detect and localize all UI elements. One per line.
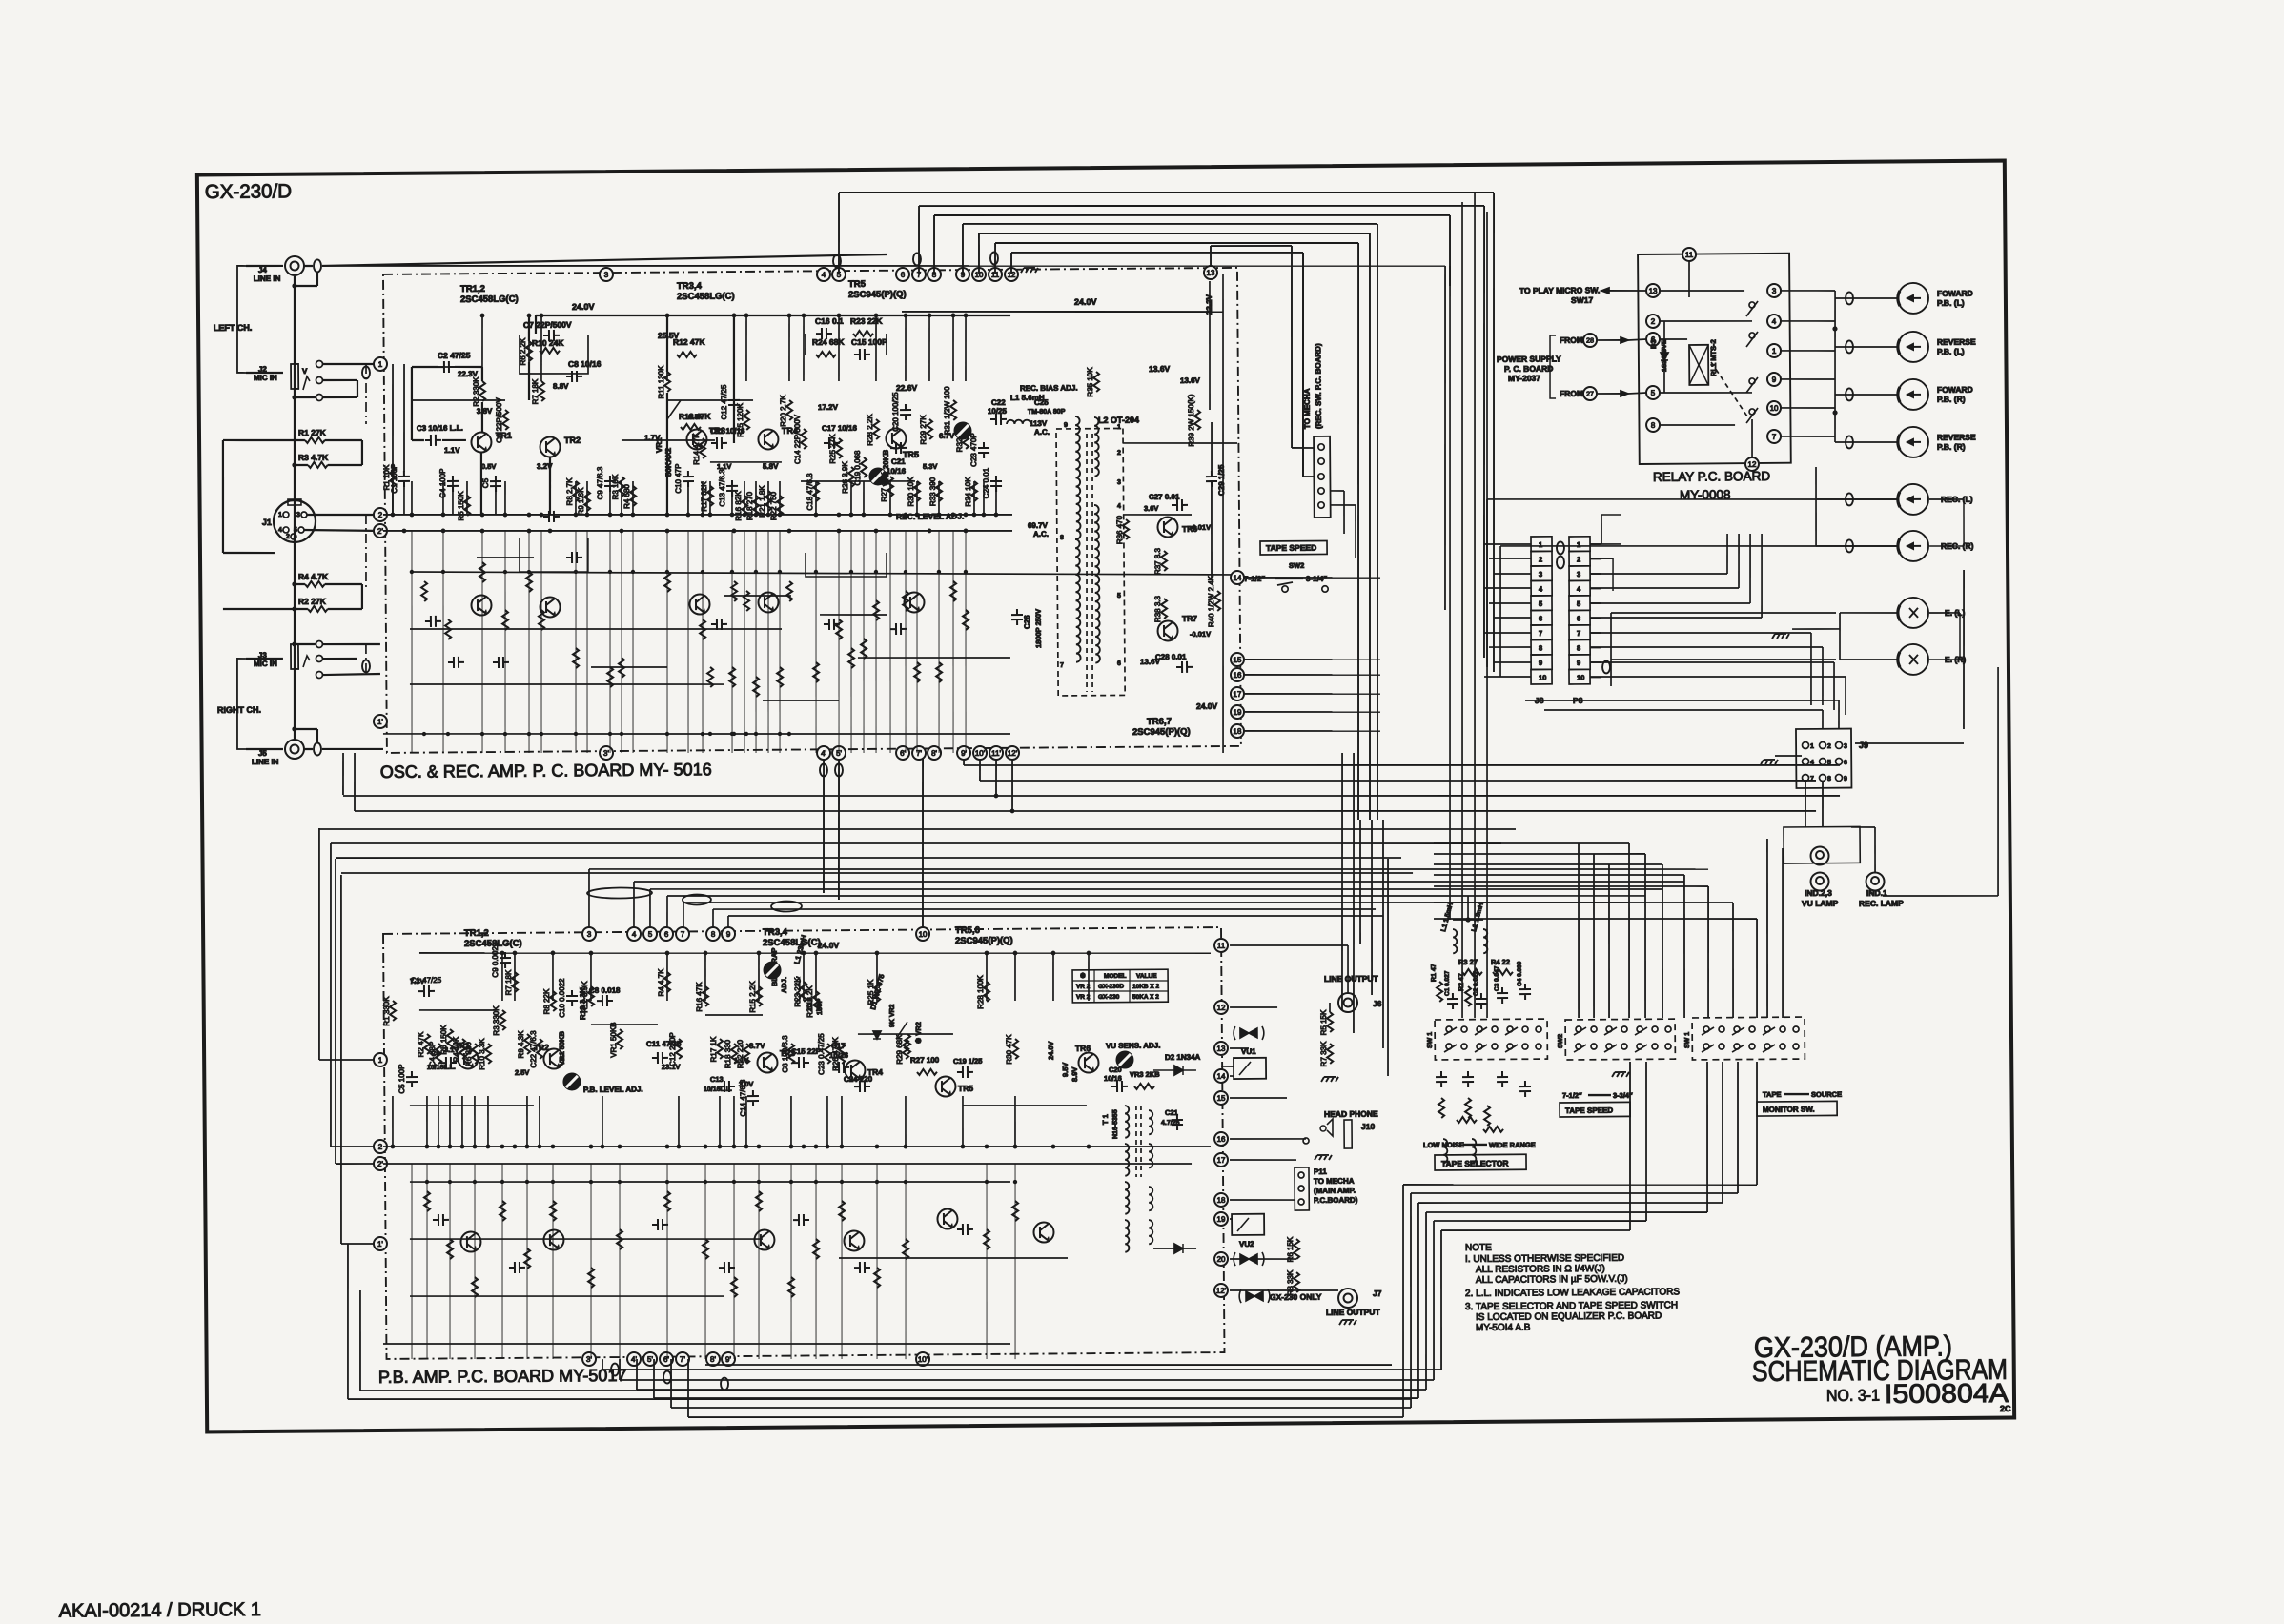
junction: [874, 314, 879, 318]
terminal 11 right edge MY-5017: [1214, 939, 1228, 952]
svg-text:6: 6: [1844, 760, 1847, 766]
resistor mirror channel: [607, 667, 613, 687]
svg-text:10': 10': [918, 1355, 928, 1364]
svg-text:R38 3.3: R38 3.3: [1153, 595, 1162, 622]
svg-text:REVERSE: REVERSE: [1937, 337, 1976, 347]
junction PB mirror: [757, 1180, 761, 1184]
junction PB mirror: [500, 1180, 504, 1184]
J8 pin 3 box: [1531, 566, 1552, 581]
svg-text:MY-0008: MY-0008: [1680, 488, 1731, 502]
resistor R2 47K: [424, 1034, 430, 1054]
wire nested: [650, 882, 1662, 898]
lamp IND1 REC: [1866, 872, 1884, 890]
capacitor C7: [543, 330, 560, 341]
wire link: [622, 439, 715, 441]
capacitor mirror channel: [890, 623, 907, 635]
resistor C12 220P: [676, 1039, 682, 1059]
transistor TR1: [471, 432, 491, 452]
svg-text:R1 330K: R1 330K: [382, 996, 391, 1026]
resistor C23 0.47/25: [825, 1044, 830, 1064]
svg-text:GX-230: GX-230: [1098, 994, 1120, 1001]
resistor R39 2W 150(K): [1194, 410, 1200, 430]
wire: [705, 1359, 1392, 1370]
relay terminal 4: [1767, 315, 1781, 328]
resistor C8 100/6.3: [788, 1044, 794, 1064]
wire mirror vertical: [665, 531, 669, 753]
terminal 9' board MY-5016: [957, 746, 970, 760]
wire nested corner horiz: [1434, 873, 1684, 877]
svg-text:3: 3: [1844, 743, 1847, 750]
junction PB: [618, 1145, 622, 1149]
svg-text:VU2: VU2: [1239, 1240, 1254, 1248]
wire from 13: [1209, 281, 1211, 410]
capacitor mirror PB: [957, 1224, 973, 1235]
junction: [665, 513, 670, 518]
wire link PB: [963, 1105, 1087, 1106]
terminal 18 right edge MY-5017: [1214, 1193, 1228, 1207]
svg-text:1: 1: [1577, 540, 1580, 549]
lamp IND3 VU: [1810, 872, 1828, 890]
svg-text:IS LOCATED ON EQUALIZER P.: IS LOCATED ON EQUALIZER P.C. BOARD: [1476, 1310, 1662, 1323]
svg-text:IND.1: IND.1: [1866, 888, 1887, 898]
relay terminal 2: [1646, 315, 1660, 328]
wire mirror vertical: [766, 531, 770, 753]
capacitor mirror channel: [543, 511, 560, 522]
svg-text:J6: J6: [1373, 999, 1382, 1008]
capacitor C15: [854, 349, 870, 360]
wire J8 feed 1: [1484, 543, 1531, 546]
wire bundle horizontal: [919, 201, 1484, 210]
svg-text:C5 100P: C5 100P: [398, 1065, 406, 1094]
wire to J9: [1855, 742, 1964, 744]
junction: [574, 513, 579, 518]
svg-text:2': 2': [377, 1160, 384, 1168]
resistor mirror PB: [617, 1229, 622, 1249]
capacitor mirror PB: [652, 1219, 668, 1230]
wire mirror vertical PB: [473, 1164, 476, 1359]
wire staircase horizontal: [1403, 1182, 1757, 1188]
resistor mirror PB: [472, 1277, 478, 1297]
J9 pin 8: [1819, 774, 1825, 781]
junction PB: [486, 1145, 491, 1149]
wire: [1123, 442, 1237, 444]
wire stub from 24V rail PB: [803, 953, 806, 1001]
monitor SW lever: [1702, 1027, 1714, 1035]
junction mirror: [904, 570, 907, 574]
wire bottom bundle: [654, 1392, 1418, 1405]
J1 pin 2: [291, 534, 296, 539]
svg-text:SOURCE: SOURCE: [1811, 1090, 1842, 1099]
capacitor C8 10/16: [566, 371, 582, 382]
wire riser from top bus: [1010, 253, 1012, 274]
wire right vertical: [1371, 820, 1374, 995]
svg-text:T 1: T 1: [1101, 1114, 1110, 1125]
wire right edge inner: [1219, 274, 1227, 753]
junction PB mirror: [448, 1180, 452, 1184]
svg-text:J1: J1: [262, 518, 272, 527]
svg-text:12': 12': [1008, 749, 1018, 758]
terminal 8' board MY-5017: [706, 1352, 720, 1366]
wire into terminal 2 PB: [331, 1146, 377, 1148]
junction mirror: [574, 570, 578, 574]
junction: [837, 529, 842, 534]
capacitor C28: [1176, 661, 1193, 673]
wire stub to bus 2: [916, 481, 919, 515]
svg-text:1: 1: [278, 512, 282, 518]
svg-text:18: 18: [1233, 727, 1242, 736]
svg-text:15: 15: [1233, 656, 1242, 664]
resistor R17 1K: [717, 1039, 723, 1059]
svg-text:R30 47K: R30 47K: [1005, 1034, 1013, 1065]
junction mirror rail: [446, 732, 450, 736]
capacitor C11 47/25: [652, 1052, 668, 1064]
transistor TR7: [1157, 620, 1177, 640]
svg-text:R4 680: R4 680: [622, 484, 631, 509]
svg-text:16: 16: [1234, 671, 1243, 680]
wire riser bottom bundle: [1401, 1185, 1405, 1417]
coil L2 primary upper: [1075, 416, 1081, 539]
wire mirror vertical: [904, 531, 907, 753]
resistor mirror channel: [731, 581, 737, 601]
capacitor C24 0.01: [990, 476, 1002, 492]
wire to head: [1835, 394, 1897, 395]
wire P8 pin 2: [1590, 558, 1601, 559]
T1 core: [1135, 1106, 1136, 1177]
wire drop to PB bus: [666, 896, 669, 928]
junction PB: [1051, 1145, 1056, 1149]
svg-text:18: 18: [1217, 1196, 1227, 1205]
svg-text:VR1 50KB: VR1 50KB: [558, 1031, 566, 1066]
cable bundle ovals: [587, 887, 652, 899]
shield oval: [362, 660, 370, 672]
svg-text:3.7V: 3.7V: [749, 1042, 765, 1050]
wire: [481, 367, 483, 381]
terminal 7' board MY-5017: [676, 1352, 689, 1366]
capacitor C4: [1519, 984, 1531, 1000]
wire LINE IN to top bus: [322, 254, 887, 266]
SW2 contact top: [1606, 1026, 1612, 1032]
wire to REC R long: [1500, 543, 1897, 550]
junction mirror rail: [608, 732, 612, 736]
svg-text:N16-5355: N16-5355: [1112, 1109, 1119, 1139]
contact: [316, 655, 322, 661]
wire: [1822, 710, 1824, 729]
terminal 7 board MY-5017: [676, 927, 689, 941]
svg-text:8: 8: [1651, 421, 1656, 430]
svg-text:7.3V: 7.3V: [410, 977, 425, 985]
headphone jack J10: [1320, 1126, 1326, 1131]
capacitor C19 1/25: [957, 1066, 973, 1078]
head FOWARD P.B. (L): [1898, 283, 1928, 314]
svg-text:14: 14: [1217, 1072, 1227, 1081]
svg-text:22.2V: 22.2V: [1205, 294, 1213, 315]
terminal 11' board MY-5016: [989, 746, 1003, 760]
junction PB: [961, 1145, 966, 1149]
junction mirror rail: [620, 732, 623, 736]
junction PB: [601, 1145, 605, 1149]
P11 connector: [1295, 1167, 1309, 1210]
svg-text:VR1 50KB: VR1 50KB: [609, 1022, 618, 1057]
wire mirror vertical: [964, 531, 968, 753]
wire: [1303, 476, 1314, 477]
svg-text:24.0V: 24.0V: [572, 302, 595, 312]
svg-text:REC. BIAS ADJ.: REC. BIAS ADJ.: [1020, 384, 1078, 393]
wire rec bracket: [1929, 498, 1964, 501]
resistor mirror channel: [836, 619, 842, 639]
capacitor C14 22P/500V: [801, 429, 806, 449]
resistor mirror channel: [777, 667, 783, 687]
resistor VR1 50KB: [617, 1029, 622, 1049]
svg-text:2': 2': [377, 527, 384, 536]
wire mirror vertical: [778, 531, 782, 753]
wire e bracket: [1929, 612, 1960, 614]
svg-text:A.C.: A.C.: [1034, 428, 1050, 436]
svg-text:R18 330: R18 330: [724, 1039, 732, 1068]
wire vertical to SW2: [1593, 854, 1596, 1018]
junction: [787, 529, 792, 534]
wire mirror rail upper: [410, 565, 1232, 580]
arrow: [1784, 1093, 1809, 1096]
wire: [1610, 613, 1611, 686]
svg-text:J9: J9: [1859, 741, 1868, 750]
wire bottom bundle: [637, 1383, 1426, 1395]
resistor R8 22K: [550, 991, 556, 1011]
wire P8 pin 8: [1590, 646, 1601, 648]
box TAPE SELECTOR: [1435, 1154, 1526, 1170]
wire P8 riser: [1821, 647, 1824, 705]
svg-text:R40 1/2W 2.4K: R40 1/2W 2.4K: [1207, 575, 1215, 627]
svg-text:SW17: SW17: [1571, 295, 1593, 305]
junction PB: [677, 1145, 682, 1149]
wire: [316, 273, 318, 286]
transformer L2 OT-204 primary: [1056, 428, 1125, 696]
terminal 5' board MY-5016: [832, 746, 846, 760]
wire mid bundle c: [319, 820, 1516, 839]
svg-text:※ VR2: ※ VR2: [914, 1022, 923, 1044]
resistor R25 1K: [874, 982, 880, 1002]
resistor R4 680: [630, 486, 636, 506]
wire drop to PB bus: [587, 869, 590, 928]
svg-text:R25 27K: R25 27K: [828, 434, 837, 464]
wire: [361, 584, 364, 609]
svg-text:R27 12K: R27 12K: [880, 472, 888, 502]
wire bundle horizontal: [934, 212, 1450, 219]
wire stub to bus 2: [452, 481, 455, 515]
svg-text:19: 19: [1217, 1215, 1227, 1224]
junction PB rail: [985, 951, 989, 956]
connector oval head: [1846, 388, 1853, 400]
wire PB terminal feed: [1230, 1199, 1295, 1200]
wire drop to PB bus: [727, 916, 729, 928]
monitor SW lever: [1763, 1045, 1775, 1052]
svg-text:R37 3.3: R37 3.3: [1153, 547, 1162, 575]
wire stub from 24V rail: [952, 315, 953, 381]
wire to E R long: [1611, 658, 1836, 661]
J8 pin 2 box: [1531, 551, 1552, 566]
svg-text:P.B. (R): P.B. (R): [1937, 395, 1966, 404]
resistor R5 15K: [1327, 1012, 1333, 1032]
terminal 5 board MY-5016: [832, 268, 846, 281]
wire D3 branch: [1663, 321, 1664, 393]
junction PB: [985, 1145, 989, 1149]
svg-text:TR7: TR7: [1182, 614, 1197, 623]
resistor R8 2.7K: [573, 481, 579, 501]
resistor R10 3.3K: [485, 1044, 491, 1064]
junction: [814, 513, 819, 518]
wire stub to bus 2 PB: [426, 1096, 429, 1147]
svg-text:C10 47P: C10 47P: [674, 464, 683, 494]
wire: [411, 367, 412, 440]
connector oval: [663, 1371, 671, 1384]
svg-text:C3 0.047: C3 0.047: [1494, 965, 1500, 991]
svg-text:6: 6: [1539, 614, 1542, 622]
wire J4 line to right: [322, 257, 1445, 275]
wire head junction vertical: [1834, 291, 1837, 442]
junction: [994, 513, 999, 518]
junction PB: [1087, 1145, 1091, 1149]
svg-text:TM-80A 80P: TM-80A 80P: [1028, 409, 1066, 416]
svg-text:P.B. (L): P.B. (L): [1937, 298, 1965, 308]
contact: [316, 376, 322, 383]
terminal 2' board MY-5016: [374, 524, 387, 538]
wire: [412, 439, 424, 441]
capacitor C4 100P: [447, 476, 459, 492]
wire stub to bus 2: [504, 481, 507, 515]
wire mirror rail PB mid: [410, 1236, 763, 1242]
wire nested corner vert to switch: [1644, 854, 1647, 1018]
svg-text:50KAX2: 50KAX2: [664, 447, 673, 477]
wire below switch vertical: [1706, 1062, 1708, 1212]
wire C29 bottom: [1211, 487, 1212, 578]
wire 24V rail: [536, 312, 1010, 319]
junction PB mirror: [425, 1180, 429, 1184]
T2 sec: [1149, 1187, 1152, 1210]
capacitor mirror PB: [509, 1262, 525, 1273]
svg-text:VR 2: VR 2: [1076, 984, 1091, 990]
svg-text:19: 19: [1234, 708, 1243, 717]
wire mid bundle f: [341, 864, 1413, 882]
wire: [1499, 546, 1501, 677]
resistor mirror PB: [788, 1277, 794, 1297]
pot PB LEVEL ADJ: [563, 1073, 581, 1090]
svg-text:9: 9: [1844, 776, 1847, 782]
junction: [849, 513, 854, 518]
J9 pin 1: [1802, 742, 1808, 749]
wire 24V rail PB: [419, 946, 1211, 959]
wire: [354, 753, 357, 811]
junction PB: [757, 1145, 762, 1149]
resistor mirror channel: [963, 610, 969, 630]
svg-text:8: 8: [711, 930, 716, 939]
wire P8 pin 9: [1590, 661, 1601, 663]
wire mirror vertical PB: [500, 1164, 503, 1359]
wire bus 2 row PB: [383, 1140, 1211, 1153]
wire link mirror: [724, 595, 791, 596]
capacitor C10 47P: [683, 471, 694, 487]
wire stub from 24V rail: [733, 315, 734, 381]
wire stub from 24V rail: [875, 315, 876, 381]
J9 pin 3: [1835, 741, 1842, 748]
P8 pin 5 box: [1569, 596, 1590, 611]
wire stub from 24V rail PB: [552, 953, 555, 1001]
svg-text:7: 7: [1060, 662, 1064, 669]
jack J5 LINE IN: [285, 740, 304, 759]
wire link: [667, 399, 753, 400]
svg-text:3-3/4″: 3-3/4″: [1613, 1091, 1633, 1100]
wire bus 2p row PB: [383, 1157, 1192, 1169]
junction PB mirror: [551, 1180, 555, 1184]
resistor R1: [305, 437, 325, 443]
wire to E L: [1840, 611, 1897, 614]
wire P8 pin 4: [1590, 587, 1601, 589]
svg-text:ALL CAPACITORS IN µF 5OW.V: ALL CAPACITORS IN µF 5OW.V.(J): [1476, 1274, 1628, 1286]
svg-text:J4: J4: [258, 266, 268, 274]
wire: [1839, 613, 1842, 660]
wire: [481, 402, 484, 432]
junction PB: [789, 1145, 794, 1149]
resistor mirror channel: [573, 648, 579, 668]
svg-text:R7 18K: R7 18K: [531, 378, 540, 404]
resistor mirror channel: [936, 662, 942, 682]
svg-text:MIC IN: MIC IN: [254, 374, 277, 382]
wire top: [1453, 919, 1483, 921]
svg-text:13.6V: 13.6V: [1180, 376, 1201, 385]
svg-text:5: 5: [294, 527, 297, 534]
svg-text:2. L.L. INDICATES LOW LEAKA: 2. L.L. INDICATES LOW LEAKAGE CAPACITORS: [1465, 1287, 1680, 1299]
wire into terminal 1p PB: [341, 1243, 377, 1246]
capacitor C1: [1447, 993, 1458, 1009]
wire mirror vertical: [837, 531, 841, 753]
bracket RIGHT CH: [236, 659, 246, 749]
wire mirror vertical: [410, 531, 414, 753]
junction: [778, 513, 783, 518]
junction PB: [826, 1145, 830, 1149]
wire nested: [728, 911, 1383, 922]
J9 pin 5: [1820, 758, 1826, 764]
svg-text:R10 3.3K: R10 3.3K: [478, 1038, 486, 1070]
wire bundle vertical down: [1449, 215, 1450, 286]
capacitor C29 1/25: [1206, 471, 1217, 487]
junction mirror rail: [730, 732, 734, 736]
svg-text:D3: D3: [1649, 339, 1658, 349]
resistor R11 130K: [664, 372, 670, 392]
junction PB rail: [814, 951, 819, 956]
lamp box: [1784, 826, 1860, 863]
svg-text:TO MECHA: TO MECHA: [1314, 1177, 1355, 1186]
wire link: [801, 480, 915, 482]
wire: [295, 396, 316, 399]
capacitor selector: [1462, 1071, 1474, 1087]
junction: [915, 513, 920, 518]
wire: [1230, 1289, 1338, 1291]
svg-text:C25: C25: [1034, 398, 1049, 407]
jack J3 MIC IN: [291, 644, 298, 669]
wire: [1601, 515, 1602, 544]
wire mirror rail PB mid b: [839, 1256, 1068, 1260]
connector oval head: [1846, 436, 1853, 448]
wire J8 feed 2: [1489, 558, 1531, 560]
wire: [295, 583, 305, 585]
junction: [904, 513, 908, 518]
capacitor mirror channel: [493, 657, 509, 668]
svg-text:10: 10: [1577, 673, 1584, 681]
junction mirror: [937, 570, 941, 574]
wire from terminal 9p: [963, 753, 965, 765]
wire: [223, 439, 295, 440]
wire left vert to PB in: [317, 828, 321, 1060]
wire stub to bus 2: [779, 481, 782, 515]
monitor SW contact bottom: [1780, 1044, 1785, 1049]
